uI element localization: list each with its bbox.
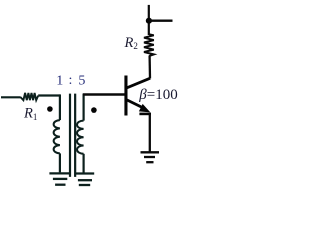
- wire primary bottom lead: [59, 153, 61, 172]
- ground primary: [49, 173, 70, 184]
- wire emitter riser: [149, 114, 151, 152]
- node dot primary: [47, 106, 53, 112]
- wire collector top: [148, 5, 150, 35]
- wire secondary bottom lead: [82, 154, 84, 173]
- node dot secondary: [91, 107, 97, 113]
- transistor Q1 base bar: [124, 76, 127, 116]
- transformer core: [70, 94, 75, 177]
- wire R1 to transformer: [38, 94, 60, 96]
- transistor collector diagonal: [127, 78, 150, 88]
- svg-text::: :: [68, 73, 72, 88]
- resistor R1: [20, 93, 38, 100]
- transistor emitter diagonal: [127, 100, 145, 109]
- wire secondary top lead: [82, 94, 84, 121]
- wire to right edge: [149, 20, 173, 22]
- wire collector riser: [148, 56, 151, 79]
- emitter arrowhead: [140, 105, 149, 112]
- label 1 : 5: [56, 73, 85, 89]
- svg-text:1: 1: [56, 74, 63, 89]
- ground secondary: [76, 174, 94, 186]
- svg-text:β=100: β=100: [138, 87, 177, 103]
- inductor primary winding: [54, 120, 60, 153]
- wire primary top lead: [59, 94, 61, 120]
- node junction dot: [146, 18, 152, 24]
- wire base: [83, 93, 125, 95]
- svg-text:5: 5: [78, 74, 85, 89]
- wire emitter stub: [139, 113, 151, 116]
- ground emitter: [141, 152, 160, 162]
- wire input left: [1, 96, 20, 98]
- inductor secondary winding: [77, 121, 84, 154]
- resistor R2: [144, 34, 154, 56]
